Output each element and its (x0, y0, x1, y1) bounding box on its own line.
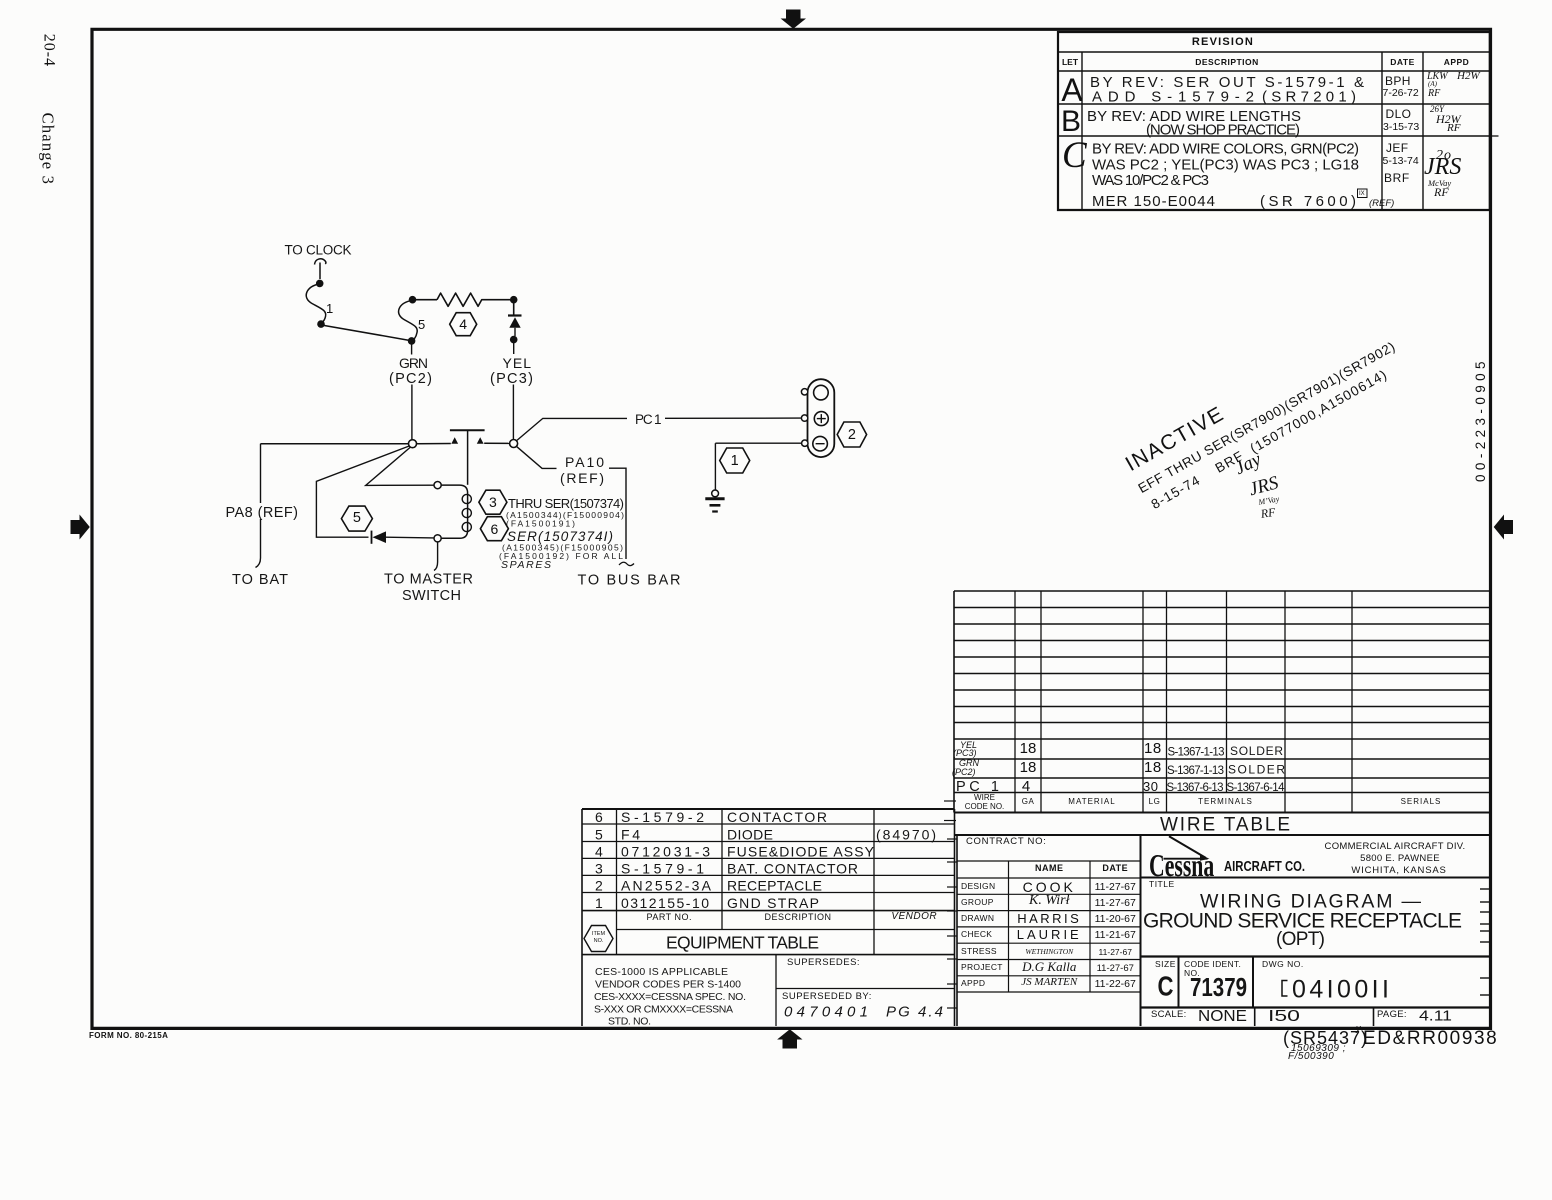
svg-text:4: 4 (595, 844, 603, 860)
svg-text:ADD S-1579-2: ADD S-1579-2 (1092, 89, 1254, 106)
svg-text:S-XXX OR CMXXXX=CESSNA: S-XXX OR CMXXXX=CESSNA (594, 1004, 733, 1016)
svg-text:(REF): (REF) (560, 470, 604, 486)
svg-text:CES-1000 IS APPLICABLE: CES-1000 IS APPLICABLE (595, 966, 728, 978)
svg-text:MER 150-E0044: MER 150-E0044 (1092, 193, 1215, 210)
svg-text:6: 6 (595, 809, 603, 825)
svg-text:VENDOR CODES PER S-1400: VENDOR CODES PER S-1400 (595, 979, 741, 991)
svg-text:I50: I50 (1268, 1008, 1301, 1025)
svg-text:(PC3): (PC3) (490, 371, 533, 387)
svg-text:TO CLOCK: TO CLOCK (285, 243, 352, 258)
svg-text:0712031-3: 0712031-3 (621, 844, 710, 860)
svg-text:CONTACTOR: CONTACTOR (727, 809, 827, 825)
svg-text:PA10: PA10 (565, 454, 604, 470)
svg-text:EQUIPMENT TABLE: EQUIPMENT TABLE (666, 933, 819, 953)
svg-text:S-1579-2: S-1579-2 (621, 809, 704, 825)
svg-text:FUSE&DIODE ASSY: FUSE&DIODE ASSY (727, 844, 875, 860)
svg-text:S-1579-1: S-1579-1 (621, 861, 704, 877)
svg-text:(OPT): (OPT) (1276, 929, 1325, 950)
svg-text:(FA1500191): (FA1500191) (506, 519, 575, 529)
svg-text:BY REV: ADD WIRE COLORS, GRN(P: BY REV: ADD WIRE COLORS, GRN(PC2) (1092, 141, 1359, 158)
svg-text:TO BAT: TO BAT (232, 572, 288, 588)
svg-text:CES-XXXX=CESSNA SPEC. NO.: CES-XXXX=CESSNA SPEC. NO. (594, 991, 746, 1003)
svg-text:(NOW SHOP PRACTICE): (NOW SHOP PRACTICE) (1146, 122, 1300, 139)
svg-text:(SR 7600): (SR 7600) (1260, 193, 1356, 210)
svg-text:5: 5 (595, 827, 603, 843)
svg-text:0312155-10: 0312155-10 (621, 895, 709, 911)
svg-text:GND STRAP: GND STRAP (727, 895, 819, 911)
svg-text:C: C (1158, 971, 1174, 1002)
svg-text:THRU SER(1507374): THRU SER(1507374) (508, 496, 624, 511)
svg-text:(PC2): (PC2) (389, 371, 432, 387)
svg-text:RECEPTACLE: RECEPTACLE (727, 878, 822, 894)
svg-text:NONE: NONE (1198, 1008, 1247, 1025)
svg-text:SWITCH: SWITCH (402, 588, 461, 604)
svg-text:S-1367-1-13: S-1367-1-13 (1167, 765, 1224, 777)
svg-text:PC 1: PC 1 (635, 412, 662, 427)
svg-text:BAT. CONTACTOR: BAT. CONTACTOR (727, 861, 858, 877)
svg-text:SOLDER: SOLDER (1230, 744, 1283, 758)
svg-text:04I00II: 04I00II (1292, 976, 1389, 1004)
svg-text:PA8 (REF): PA8 (REF) (226, 505, 299, 521)
svg-text:SOLDER: SOLDER (1228, 763, 1285, 777)
svg-text:TO MASTER: TO MASTER (384, 572, 473, 588)
svg-text:4.11: 4.11 (1419, 1008, 1452, 1025)
svg-text:S-1367-6-14: S-1367-6-14 (1227, 782, 1286, 794)
svg-text:DIODE: DIODE (727, 827, 773, 843)
svg-text:S-1367-6-13: S-1367-6-13 (1167, 782, 1224, 794)
svg-text:WAS 10/PC2 & PC3: WAS 10/PC2 & PC3 (1092, 172, 1209, 189)
svg-text:1: 1 (595, 895, 603, 911)
svg-text:3: 3 (595, 861, 603, 877)
svg-text:0470401: 0470401 (784, 1004, 868, 1021)
svg-text:YEL: YEL (503, 355, 532, 371)
svg-text:(SR7201): (SR7201) (1262, 89, 1356, 106)
svg-text:TO BUS BAR: TO BUS BAR (578, 573, 681, 589)
svg-text:GRN: GRN (399, 355, 428, 371)
svg-text:WAS PC2 ; YEL(PC3) WAS PC3 ; L: WAS PC2 ; YEL(PC3) WAS PC3 ; LG18 (1092, 157, 1359, 174)
svg-text:WIRE TABLE: WIRE TABLE (1160, 815, 1290, 836)
svg-text:F4: F4 (621, 827, 640, 843)
svg-text:S-1367-1-13: S-1367-1-13 (1168, 747, 1225, 759)
svg-text:2: 2 (595, 878, 603, 894)
svg-text:PG 4.4: PG 4.4 (886, 1004, 943, 1021)
svg-text:(84970): (84970) (876, 827, 936, 843)
svg-text:STD. NO.: STD. NO. (608, 1016, 651, 1028)
svg-text:AN2552-3A: AN2552-3A (621, 878, 712, 894)
